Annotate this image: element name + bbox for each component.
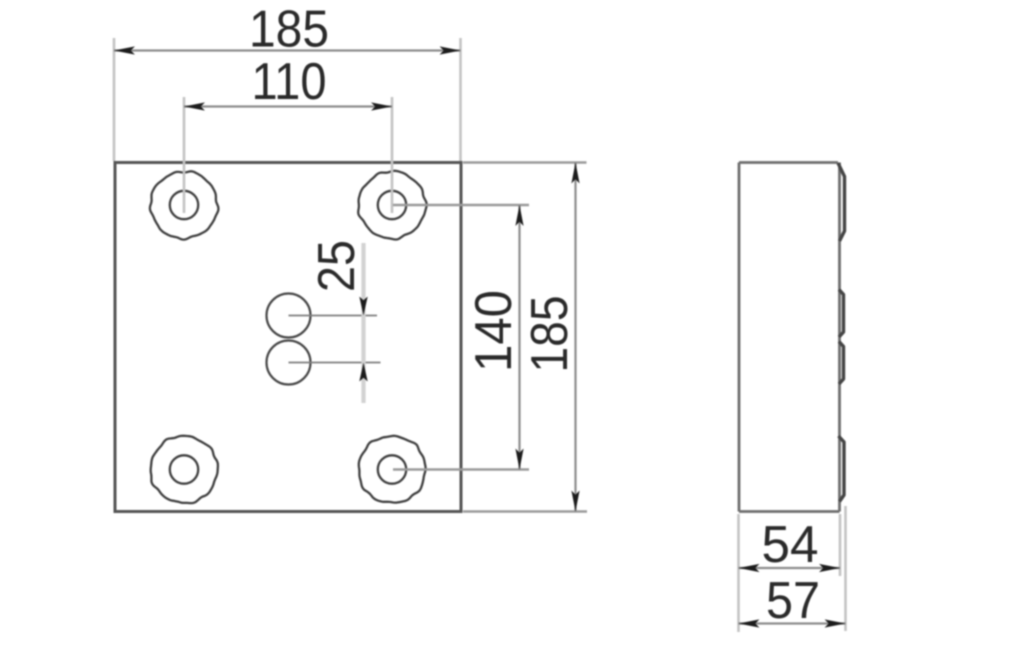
dimension 110: dimension line [184, 105, 392, 107]
dimension 140: leader from bottom-right hole [393, 468, 529, 470]
mounting hole bottom-left [151, 436, 218, 503]
dimension 57: dimension line [739, 622, 846, 624]
dimension 54: right arrow [819, 564, 840, 572]
dimension 185 top: right arrow [440, 46, 461, 54]
svg-text:54: 54 [762, 516, 819, 574]
dimension 110: right arrow [371, 102, 392, 110]
mounting hole top-left [150, 171, 219, 239]
side view boss top [838, 163, 845, 241]
dimension 54: extension line right [839, 514, 842, 576]
dimension 185 top: dimension line [114, 49, 461, 51]
dimension 185 right: bottom arrow [571, 491, 579, 512]
dimension 140: dimension line [518, 205, 520, 470]
side view boss middle-lower [839, 342, 844, 385]
dimension 185 top: left arrow [114, 46, 135, 54]
dimension 185 right: extension line bottom [463, 510, 587, 512]
dimension 140: top arrow [515, 205, 523, 226]
mounting hole top-right [358, 171, 427, 240]
dimension 25: dimension line [361, 243, 365, 403]
small hole upper [267, 294, 311, 338]
dimension 54: extension line left [737, 514, 740, 632]
dimension 25: leader from lower small hole [289, 362, 381, 364]
dimension 54: left arrow [739, 564, 760, 572]
dimension 110: extension line right [391, 97, 394, 213]
svg-text:25: 25 [308, 240, 366, 292]
svg-text:185: 185 [249, 1, 329, 59]
dimension 185 top: extension line left [113, 38, 116, 161]
dimension 25: upper arrow [359, 297, 367, 316]
svg-text:57: 57 [766, 572, 820, 630]
dimension 57: right arrow [825, 619, 846, 627]
dimension 110: extension line left [183, 97, 186, 213]
dimension 140: leader from top-right hole [393, 204, 529, 206]
dimension 185 right: extension line top [463, 161, 587, 163]
dimension 57: extension line right [844, 506, 847, 631]
plate side view outline [739, 163, 840, 512]
dimension 54: dimension line [739, 567, 841, 569]
dimension 140: bottom arrow [515, 449, 523, 470]
svg-text:185: 185 [521, 296, 579, 373]
dimension 185 top: extension line right [459, 38, 462, 161]
dimension 185 right: dimension line [574, 163, 576, 512]
plate front view outline [115, 163, 461, 512]
svg-text:140: 140 [465, 290, 523, 372]
side view boss middle-upper [839, 290, 844, 338]
dimension 185 right: top arrow [571, 163, 579, 184]
side view boss bottom [839, 436, 845, 502]
dimension 25: lower arrow [359, 363, 367, 382]
dimension 110: left arrow [184, 102, 205, 110]
dimension 57: left arrow [739, 619, 760, 627]
dimension 25: leader from upper small hole [289, 315, 378, 317]
small hole lower [267, 341, 311, 385]
mounting hole bottom-right [359, 436, 426, 503]
svg-text:110: 110 [252, 53, 327, 111]
